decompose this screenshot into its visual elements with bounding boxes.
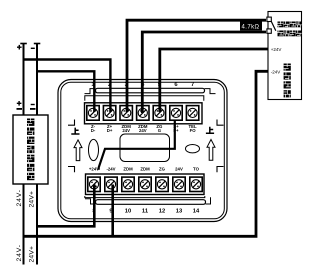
wire: terminal 5 to +24V of device xyxy=(160,49,268,112)
svg-text:13: 13 xyxy=(176,209,183,215)
label: fire alarm controller (vertical) xyxy=(27,119,34,181)
NO contact upper terminal xyxy=(267,17,271,21)
NO contact blade xyxy=(271,21,276,31)
terminal 4 xyxy=(137,106,149,121)
terminal 11 xyxy=(139,177,151,191)
top terminal labels xyxy=(91,124,197,133)
wire: left 24V+ vertical xyxy=(36,184,38,265)
terminal 8 xyxy=(88,177,100,191)
svg-text:ZDM: ZDM xyxy=(140,167,150,172)
right mounting hole xyxy=(186,145,200,153)
terminal numbers 1-7 xyxy=(91,82,194,88)
svg-text:-24V: -24V xyxy=(271,70,281,75)
wire: controller + stub xyxy=(23,44,25,116)
svg-text:24V+: 24V+ xyxy=(29,246,36,263)
label: controlled device (vertical) xyxy=(284,64,291,98)
wire: + to terminal 2 xyxy=(24,60,111,113)
svg-text:24V-: 24V- xyxy=(16,190,23,207)
svg-text:11: 11 xyxy=(142,209,149,215)
top strip base plate xyxy=(85,96,204,101)
svg-text:ZDM: ZDM xyxy=(123,167,133,172)
wire: left 24V- vertical xyxy=(23,184,25,265)
svg-text:24V: 24V xyxy=(139,128,147,133)
bottom mounting rail xyxy=(96,200,206,205)
terminal 3 xyxy=(120,106,132,121)
svg-text:24V: 24V xyxy=(175,167,183,172)
left UP marking (shang) xyxy=(71,128,79,134)
terminal 6 xyxy=(170,106,182,121)
terminal 5 xyxy=(153,106,165,121)
right up arrow xyxy=(207,140,215,161)
terminal 7 xyxy=(186,106,198,121)
label - (box entry) xyxy=(31,104,35,106)
left mounting hole xyxy=(89,139,99,160)
terminal 10 xyxy=(122,177,134,191)
svg-text:14: 14 xyxy=(193,209,200,215)
svg-text:7: 7 xyxy=(191,82,194,88)
wire: terminal 9 to 24V- bus xyxy=(111,185,114,237)
svg-text:24V+: 24V+ xyxy=(29,191,36,208)
svg-text:24V: 24V xyxy=(122,128,130,133)
right UP marking (shang) xyxy=(206,127,214,133)
wire: 24V- return from device xyxy=(24,71,268,236)
NO contact lower terminal xyxy=(267,29,271,33)
svg-text:+24V: +24V xyxy=(271,47,282,52)
terminal 9 xyxy=(105,177,117,191)
terminal 2 xyxy=(103,106,115,121)
svg-text:12: 12 xyxy=(159,209,165,215)
label: dedicated input line2 xyxy=(278,31,302,37)
top mounting rail xyxy=(96,88,205,93)
label plate xyxy=(120,134,170,162)
label: audio amplifier line1 xyxy=(278,22,302,28)
module housing outer shell xyxy=(58,80,227,222)
housing side hooks xyxy=(68,120,75,126)
svg-text:FO: FO xyxy=(190,128,197,133)
left up arrow xyxy=(74,140,82,161)
module housing inner shell xyxy=(61,82,225,219)
svg-text:24V-: 24V- xyxy=(16,245,23,262)
svg-text:4.7kΩ: 4.7kΩ xyxy=(242,25,260,31)
bottom terminal labels xyxy=(89,167,200,172)
terminal numbers 8-14 xyxy=(92,209,200,215)
svg-text:-24V: -24V xyxy=(106,167,115,172)
wire: terminal 3 to NO contact (top) xyxy=(127,20,266,112)
terminal 1 xyxy=(87,106,99,121)
label + (box entry) xyxy=(17,101,22,106)
wire: terminal 4 to NO contact (bottom) xyxy=(142,32,266,113)
wire: 24V+ to terminal 8 xyxy=(37,185,94,227)
fire alarm controller box xyxy=(13,115,48,184)
svg-text:10: 10 xyxy=(125,209,131,215)
jumper wire T6 to bottom strip xyxy=(99,121,175,170)
label - (top) xyxy=(31,47,35,49)
terminal 14 xyxy=(190,177,202,191)
top terminal strip xyxy=(85,103,203,124)
wire: controller - stub xyxy=(36,44,38,116)
terminal 12 xyxy=(156,177,168,191)
svg-text:TO: TO xyxy=(193,167,200,172)
svg-text:D+: D+ xyxy=(107,128,113,133)
controlled device box xyxy=(268,12,302,100)
terminal 13 xyxy=(173,177,185,191)
label + (top) xyxy=(17,45,22,50)
bottom terminal strip xyxy=(86,174,205,195)
bottom strip base plate xyxy=(85,196,205,198)
svg-text:ZG: ZG xyxy=(159,167,166,172)
4.7k terminal resistor label xyxy=(240,21,262,30)
wire: - to terminal 1 xyxy=(37,71,94,112)
svg-text:D-: D- xyxy=(91,128,96,133)
